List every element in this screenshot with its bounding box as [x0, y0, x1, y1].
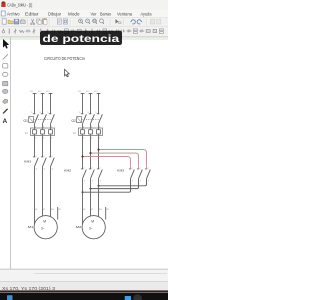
- svg-text:Modo: Modo: [68, 12, 80, 17]
- svg-text:Q1: Q1: [23, 118, 28, 122]
- svg-text:Ventana: Ventana: [117, 12, 133, 17]
- svg-text:KM3: KM3: [117, 169, 124, 173]
- svg-text:3~: 3~: [89, 227, 93, 231]
- svg-text:CIRCUITO DE POTENCIA: CIRCUITO DE POTENCIA: [44, 56, 85, 61]
- svg-text:3~: 3~: [41, 227, 45, 231]
- svg-text:CADe_SIMU - [1]: CADe_SIMU - [1]: [7, 3, 32, 8]
- svg-text:KM1: KM1: [24, 159, 31, 163]
- svg-text:Ayuda: Ayuda: [141, 12, 153, 17]
- svg-text:Editar: Editar: [25, 12, 39, 17]
- svg-text:M1: M1: [28, 225, 34, 229]
- svg-text:M: M: [43, 220, 46, 224]
- svg-text:M2: M2: [76, 225, 82, 229]
- svg-text:M: M: [91, 220, 94, 224]
- svg-text:A: A: [3, 118, 8, 125]
- svg-text:Dibujar: Dibujar: [48, 12, 62, 17]
- svg-text:Barras: Barras: [100, 12, 111, 17]
- svg-text:Q2: Q2: [71, 118, 76, 122]
- svg-text:Archivo: Archivo: [7, 12, 20, 17]
- svg-text:Ver: Ver: [91, 12, 98, 17]
- svg-text:Xs 170, Ys 170 (201) 3: Xs 170, Ys 170 (201) 3: [2, 286, 56, 291]
- svg-text:KM2: KM2: [64, 169, 71, 173]
- svg-text:de potencia: de potencia: [42, 34, 119, 45]
